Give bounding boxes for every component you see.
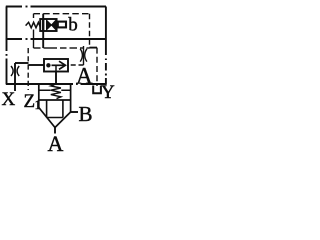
poppet left side <box>46 100 48 118</box>
main control wire shuttle to main valve <box>55 72 57 85</box>
enclosure top chain line <box>6 6 106 8</box>
pilot seat bar <box>42 20 44 31</box>
enclosure left chain line <box>6 7 8 85</box>
Y plugged port cup <box>93 86 101 94</box>
orifice b to valve stub <box>56 24 58 26</box>
svg-text:Y: Y <box>101 82 115 103</box>
svg-text:A: A <box>48 131 64 154</box>
dashed wire shuttle to orifice <box>70 64 84 66</box>
pilot inlet wire <box>42 31 44 48</box>
port B wire <box>71 111 78 113</box>
node to X branch wire <box>15 62 29 64</box>
X orifice arcs <box>11 66 19 76</box>
seat V left <box>39 108 55 128</box>
main valve box top <box>39 83 71 85</box>
enclosure bottom chain line <box>6 83 107 85</box>
main valve inner shoulder lines <box>39 89 71 91</box>
seat V right <box>55 112 71 128</box>
shuttle arrow <box>52 64 65 66</box>
right pilot orifice vertical wire <box>83 46 85 65</box>
shuttle outlet inner <box>55 65 57 71</box>
X orifice vertical wire <box>14 63 16 91</box>
pilot valve body <box>40 19 56 31</box>
shuttle ball <box>46 63 50 67</box>
poppet right side <box>62 100 64 118</box>
port A stub <box>54 128 56 134</box>
shuttle valve body <box>44 59 68 72</box>
enclosure mid chain divider <box>6 38 106 40</box>
main valve left wall <box>38 84 40 108</box>
poppet seat chord <box>47 117 63 119</box>
Z1 dashed pilot line <box>27 48 29 90</box>
main valve right wall <box>70 84 72 112</box>
svg-text:Z: Z <box>24 91 36 112</box>
pilot valve dashed enclosure <box>34 14 90 48</box>
enclosure right chain line <box>105 7 107 85</box>
pilot valve top tick <box>42 14 44 19</box>
main valve mid line <box>39 99 71 101</box>
svg-text:X: X <box>2 89 16 110</box>
pilot spring <box>26 22 41 28</box>
svg-text:1: 1 <box>35 97 42 112</box>
shuttle left wire <box>29 64 45 66</box>
svg-text:b: b <box>68 15 78 36</box>
right pilot orifice arcs <box>80 49 87 62</box>
Y drain dashed line <box>90 47 98 49</box>
main valve spring <box>51 84 61 99</box>
orifice b rectangle <box>58 22 66 28</box>
svg-text:A: A <box>76 64 93 89</box>
pilot poppet bowtie <box>47 20 52 30</box>
svg-text:B: B <box>79 102 93 126</box>
